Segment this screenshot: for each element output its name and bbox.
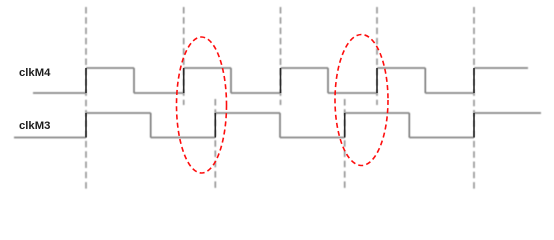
- clkM3 falling edges: [151, 113, 410, 138]
- clkM4 falling edges: [134, 68, 425, 93]
- red dashed highlight ellipse 2 (edges near x=345/377): [335, 35, 388, 166]
- dashed gridline at clkM4/clkM3 rising edge x=86 (full height): [85, 7, 87, 190]
- clkM4 rising edges (dark): [86, 68, 474, 93]
- red dashed highlight ellipse 1 (edges near x=184/215): [177, 37, 227, 173]
- dashed gridline at clkM3 rising edge x=215 (bottom half): [214, 99, 216, 190]
- clkM4 waveform horizontal segments: [33, 68, 528, 93]
- dashed gridline at clkM4 rising edge x=280 (top half): [280, 7, 282, 105]
- svg-text:clkM3: clkM3: [19, 120, 50, 132]
- dashed gridline at clkM4 rising edge x=184 (top half): [183, 7, 185, 105]
- dashed gridline at clkM3 rising edge x=345 (bottom half): [344, 99, 346, 190]
- dashed gridline at clkM4/clkM3 rising edge x=474 (full height): [473, 7, 475, 190]
- clkM3 rising edges (dark): [86, 113, 474, 138]
- svg-text:clkM4: clkM4: [19, 67, 51, 79]
- clkM3 waveform horizontal segments: [14, 113, 541, 138]
- dashed gridline at clkM4 rising edge x=377 (top half): [376, 7, 378, 105]
